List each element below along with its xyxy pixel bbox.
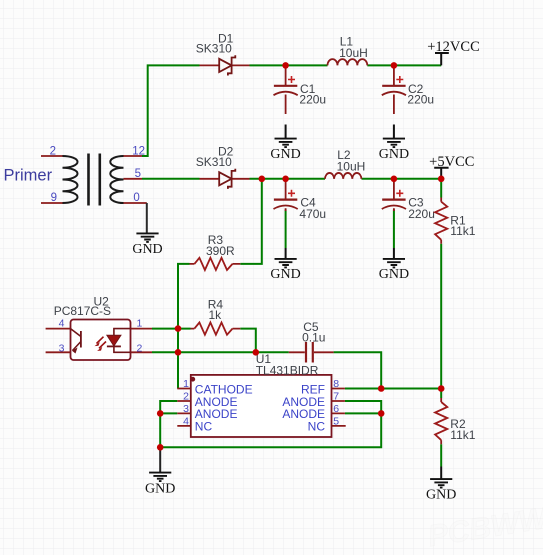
label C1 [300, 82, 316, 96]
label R4 [208, 298, 224, 312]
svg-text:Primer: Primer [4, 166, 53, 184]
inductor L2 [325, 173, 361, 179]
wire REF row [345, 388, 441, 390]
svg-text:PC817C-S: PC817C-S [54, 304, 111, 318]
svg-text:11k1: 11k1 [450, 428, 475, 442]
label R2 [450, 417, 466, 431]
diode D1 SK310 [200, 55, 250, 75]
pin 5 [135, 168, 141, 180]
label TL431BIDR [256, 364, 319, 378]
wire R4 down to cathode net [240, 329, 256, 353]
svg-text:+12VCC: +12VCC [427, 39, 480, 55]
svg-text:220u: 220u [408, 207, 435, 221]
wire R3/R4/U2 column [178, 264, 190, 389]
svg-text:3: 3 [59, 343, 65, 355]
svg-text:GND: GND [426, 487, 456, 502]
label 220u (C1) [299, 93, 326, 107]
junction R1/+5V [438, 176, 445, 183]
resistor R2 [435, 398, 447, 444]
label R1 [450, 213, 466, 227]
label 11k1 (R1) [450, 224, 475, 238]
junction pin6 [378, 410, 385, 417]
svg-text:8: 8 [333, 378, 339, 390]
wire +5V rail [142, 178, 441, 180]
junction anode/ground column [157, 410, 164, 417]
transformer T1 Primer [41, 154, 147, 206]
power port +12VCC [427, 39, 480, 65]
ground GND R2 [426, 467, 456, 503]
junction REF/R1R2 [438, 385, 445, 392]
inductor L1 [328, 59, 368, 65]
svg-text:220u: 220u [407, 93, 434, 107]
pin 4 (U2) [59, 318, 65, 330]
pin 1 (U1) CATHODE [183, 378, 252, 396]
capacitor C5 [289, 342, 334, 363]
optocoupler U2 PC817C-S [46, 320, 152, 361]
svg-text:220u: 220u [299, 93, 326, 107]
svg-text:1: 1 [183, 378, 189, 390]
junction R4/cathode [253, 349, 260, 356]
IC U1 TL431BIDR [177, 375, 345, 437]
pin 8 (U1) REF [301, 378, 339, 396]
junction U2 pin1 row [175, 325, 182, 332]
label Primer [4, 166, 53, 184]
label 1k [209, 308, 223, 322]
pin 2 (U1) ANODE [183, 391, 237, 409]
pin 0 [133, 192, 139, 204]
pin 3 (U2) [59, 343, 65, 355]
label L2 [337, 148, 351, 162]
wire U1 pin2/pin3 to ground column [160, 401, 177, 448]
label SK310 (D1) [196, 42, 232, 56]
svg-text:GND: GND [270, 267, 300, 282]
resistor R3 [190, 258, 241, 270]
svg-text:GND: GND [145, 482, 175, 497]
svg-text:0.1u: 0.1u [302, 330, 325, 344]
capacitor C3 [382, 179, 406, 211]
svg-text:7: 7 [333, 391, 339, 403]
svg-text:10uH: 10uH [337, 159, 366, 173]
label L1 [340, 35, 354, 49]
label D1 [218, 31, 234, 45]
pin 4 (U1) NC [183, 415, 212, 433]
wire U1 pin6 [345, 412, 381, 414]
junction U2 pin2 row left [175, 349, 182, 356]
resistor R1 [435, 198, 447, 244]
ground GND C4 [270, 248, 300, 282]
svg-text:GND: GND [379, 267, 409, 282]
wire U2 pin1 to R4 [152, 328, 191, 330]
ground GND C3 [379, 248, 409, 282]
capacitor C2 [382, 65, 406, 114]
label 220u (C2) [407, 93, 434, 107]
label C4 [300, 196, 316, 210]
svg-text:GND: GND [132, 242, 162, 257]
resistor R4 [191, 323, 241, 335]
label R3 [208, 233, 224, 247]
svg-text:470u: 470u [299, 207, 326, 221]
label U1 [256, 352, 272, 366]
svg-text:TL431BIDR: TL431BIDR [256, 364, 319, 378]
svg-text:12: 12 [132, 145, 145, 157]
junction C2/+12V [391, 62, 398, 69]
label D2 [218, 145, 234, 159]
label 470u (C4) [299, 207, 326, 221]
svg-text:NC: NC [195, 420, 213, 434]
svg-text:2: 2 [137, 343, 143, 355]
svg-text:2: 2 [183, 391, 189, 403]
junction C4/+5V [282, 176, 289, 183]
label 10uH (L1) [339, 46, 368, 60]
svg-text:1: 1 [137, 318, 143, 330]
pin 5 (U1) NC [308, 415, 340, 433]
pin 12 [132, 145, 145, 157]
label 390R [206, 244, 235, 258]
svg-text:10uH: 10uH [339, 46, 368, 60]
pin 2 [50, 145, 56, 157]
svg-text:11k1: 11k1 [450, 224, 475, 238]
label 0.1u [302, 330, 325, 344]
wire C3 to ground [393, 210, 395, 249]
wire R1 column [440, 179, 442, 467]
label C3 [408, 196, 424, 210]
wire U1 pin7 loop to bottom [160, 401, 381, 447]
ground GND bottom left [145, 448, 175, 497]
pin 2 (U2) [137, 343, 143, 355]
wire +12V rail [142, 65, 441, 156]
wire R3 to +5V rail [240, 179, 261, 264]
svg-text:5: 5 [135, 168, 141, 180]
label PC817C-S [54, 304, 111, 318]
capacitor C4 [274, 179, 298, 211]
ground GND C2 [379, 125, 409, 163]
svg-text:1k: 1k [209, 308, 223, 322]
junction bottom wire/ground [157, 444, 164, 451]
svg-text:6: 6 [333, 403, 339, 415]
wire pin0 to ground [146, 203, 148, 233]
svg-text:SK310: SK310 [196, 155, 232, 169]
label SK310 (D2) [196, 155, 232, 169]
svg-text:0: 0 [133, 192, 139, 204]
diode D2 SK310 [200, 169, 250, 189]
svg-text:SK310: SK310 [196, 42, 232, 56]
svg-text:5: 5 [333, 415, 339, 427]
svg-text:+5VCC: +5VCC [429, 154, 474, 170]
pin 6 (U1) ANODE [282, 403, 339, 421]
label C2 [408, 82, 424, 96]
junction R3/+5V [259, 176, 266, 183]
svg-text:4: 4 [59, 318, 65, 330]
watermark [426, 502, 543, 554]
svg-text:390R: 390R [206, 244, 235, 258]
ground GND transformer [132, 233, 162, 256]
svg-text:9: 9 [51, 192, 57, 204]
label 10uH (L2) [337, 159, 366, 173]
wire C4 to ground [285, 210, 287, 249]
pin 7 (U1) ANODE [282, 391, 339, 409]
label U2 [94, 295, 110, 309]
junction C3/+5V [391, 176, 398, 183]
power port +5VCC [429, 154, 474, 179]
wire U2 pin2 / cathode net [152, 351, 289, 353]
svg-text:4: 4 [183, 415, 189, 427]
label 11k1 (R2) [450, 428, 475, 442]
junction C1/+12V [282, 62, 289, 69]
wire C5 to REF [334, 352, 382, 388]
ground GND C1 [270, 125, 300, 163]
svg-text:2: 2 [50, 145, 56, 157]
label C5 [303, 320, 319, 334]
svg-text:3: 3 [183, 403, 189, 415]
pin 3 (U1) ANODE [183, 403, 237, 421]
pin 9 [51, 192, 57, 204]
junction REF/C5 [378, 385, 385, 392]
svg-text:GND: GND [270, 147, 300, 162]
svg-text:NC: NC [308, 420, 326, 434]
pin 1 (U2) [137, 318, 143, 330]
capacitor C1 [274, 65, 298, 114]
label 220u (C3) [408, 207, 435, 221]
svg-text:GND: GND [379, 147, 409, 162]
